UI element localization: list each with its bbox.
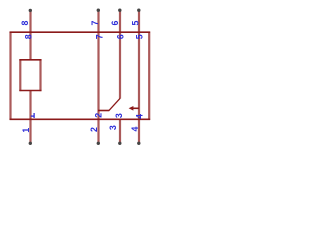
svg-text:7: 7 [95, 34, 105, 39]
switch lever diagonal [109, 98, 120, 111]
pin end dot 8 [29, 9, 32, 12]
symbol body outline bottom edge [10, 118, 151, 120]
pin 8 wire (top left) [29, 10, 31, 60]
svg-text:6: 6 [115, 34, 125, 39]
pin 3 wire [119, 119, 121, 143]
svg-text:7: 7 [90, 20, 100, 25]
switch contact bar [98, 110, 109, 112]
svg-text:3: 3 [108, 125, 118, 130]
svg-text:8: 8 [24, 34, 34, 39]
pin end dot 1 [29, 142, 32, 145]
svg-text:6: 6 [110, 20, 120, 25]
svg-text:3: 3 [114, 113, 124, 118]
svg-text:1: 1 [21, 128, 31, 133]
coil box top edge [19, 59, 41, 61]
svg-text:5: 5 [135, 34, 145, 39]
pin 6 wire [119, 10, 121, 98]
pin end dot 2 [97, 142, 100, 145]
pin 5 / pin 4 wire [138, 10, 140, 143]
symbol body outline left edge [9, 32, 11, 121]
pin end dot 3 [118, 142, 121, 145]
symbol body outline top edge [10, 31, 151, 33]
svg-text:4: 4 [130, 127, 140, 132]
pin end dot 6 [118, 9, 121, 12]
pin 1 wire (bottom left) [29, 91, 31, 144]
svg-text:2: 2 [89, 127, 99, 132]
coil box left edge [19, 59, 21, 91]
pin name 1 [31, 115, 35, 117]
svg-text:8: 8 [20, 20, 30, 25]
actuator arrow shaft [132, 107, 140, 109]
pin end dot 4 [137, 142, 140, 145]
svg-text:2: 2 [94, 113, 104, 118]
symbol body outline right edge [148, 32, 150, 121]
coil box right edge [39, 59, 41, 91]
svg-text:5: 5 [131, 20, 141, 25]
pin 7 / pin 2 common wire [97, 10, 99, 143]
pin end dot 7 [97, 9, 100, 12]
coil box bottom edge [19, 90, 41, 92]
actuator arrow head [129, 106, 134, 111]
pin end dot 5 [137, 9, 140, 12]
svg-text:4: 4 [134, 114, 144, 119]
